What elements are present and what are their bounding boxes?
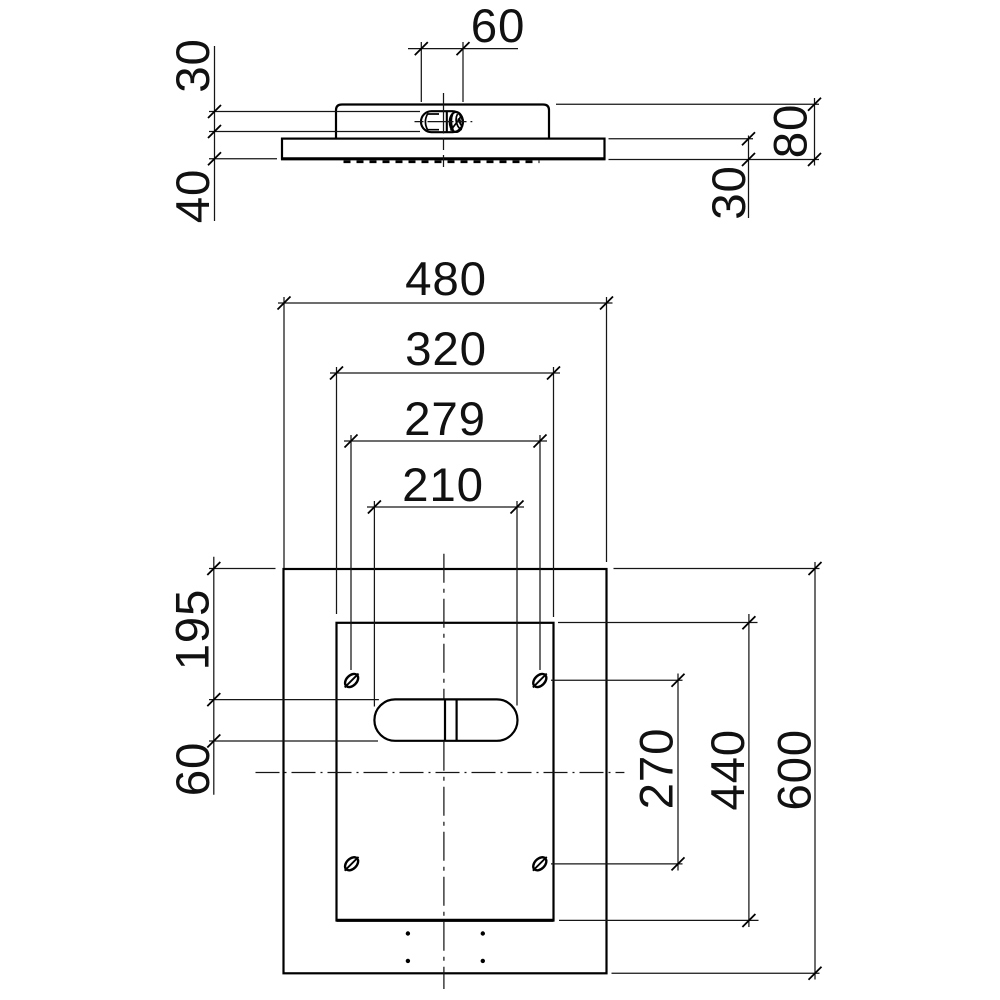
svg-text:60: 60 [471,0,525,53]
svg-text:480: 480 [405,253,487,306]
svg-text:30: 30 [167,38,220,92]
svg-text:320: 320 [405,323,487,376]
svg-text:279: 279 [404,393,486,446]
svg-text:600: 600 [769,729,822,811]
svg-text:80: 80 [765,104,818,158]
svg-text:195: 195 [167,589,220,671]
svg-text:440: 440 [702,729,755,811]
svg-text:30: 30 [703,165,756,219]
svg-text:210: 210 [402,459,484,512]
svg-text:270: 270 [631,728,684,810]
svg-text:60: 60 [167,742,220,796]
svg-text:40: 40 [167,169,220,223]
